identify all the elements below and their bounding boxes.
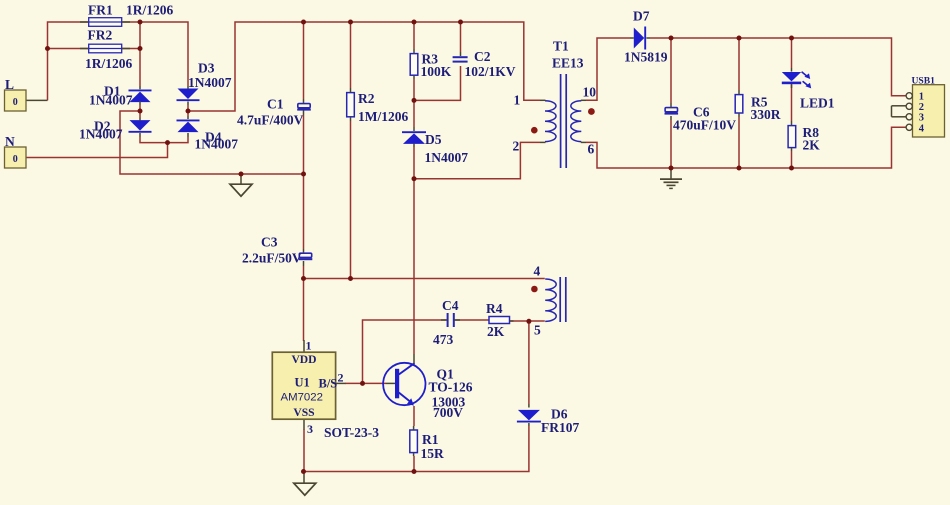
svg-text:R1: R1 — [422, 432, 439, 447]
svg-text:D7: D7 — [633, 9, 650, 24]
svg-text:D5: D5 — [425, 132, 442, 147]
svg-text:TO-126: TO-126 — [429, 380, 473, 395]
svg-text:15R: 15R — [421, 446, 445, 461]
svg-text:1: 1 — [919, 91, 924, 102]
svg-text:3: 3 — [307, 422, 313, 436]
svg-text:R4: R4 — [486, 301, 503, 316]
svg-text:D3: D3 — [198, 61, 215, 76]
svg-text:C2: C2 — [474, 49, 491, 64]
svg-text:1R/1206: 1R/1206 — [126, 3, 174, 18]
svg-text:VDD: VDD — [291, 353, 316, 366]
svg-text:0: 0 — [13, 97, 18, 108]
svg-text:700V: 700V — [433, 405, 463, 420]
svg-text:1R/1206: 1R/1206 — [85, 56, 133, 71]
svg-text:2: 2 — [919, 102, 924, 113]
svg-text:B/S: B/S — [319, 377, 338, 391]
svg-text:2: 2 — [338, 371, 344, 385]
svg-text:SOT-23-3: SOT-23-3 — [324, 425, 379, 440]
svg-text:4: 4 — [919, 123, 925, 134]
svg-text:U1: U1 — [295, 376, 310, 390]
svg-text:102/1KV: 102/1KV — [465, 64, 516, 79]
svg-text:L: L — [5, 77, 14, 92]
svg-text:5: 5 — [534, 323, 541, 338]
svg-text:4: 4 — [534, 264, 541, 279]
svg-text:3: 3 — [919, 112, 924, 123]
svg-text:1N4007: 1N4007 — [89, 93, 133, 108]
svg-text:C1: C1 — [267, 97, 284, 112]
svg-text:2.2uF/50V: 2.2uF/50V — [242, 251, 302, 266]
svg-text:100K: 100K — [421, 64, 452, 79]
svg-text:LED1: LED1 — [800, 96, 835, 111]
svg-text:2K: 2K — [803, 138, 821, 153]
svg-text:4.7uF/400V: 4.7uF/400V — [237, 113, 304, 128]
svg-text:R2: R2 — [358, 91, 375, 106]
svg-text:FR107: FR107 — [541, 420, 579, 435]
svg-text:1N4007: 1N4007 — [188, 75, 232, 90]
svg-text:330R: 330R — [751, 107, 781, 122]
svg-text:2K: 2K — [487, 324, 505, 339]
svg-text:2: 2 — [513, 139, 520, 154]
svg-text:1N4007: 1N4007 — [425, 150, 469, 165]
svg-text:AM7022: AM7022 — [281, 392, 323, 404]
svg-text:VSS: VSS — [293, 406, 314, 419]
svg-text:T1: T1 — [553, 39, 569, 54]
svg-text:C3: C3 — [261, 235, 278, 250]
svg-text:FR2: FR2 — [88, 28, 113, 43]
svg-text:C4: C4 — [442, 298, 459, 313]
svg-text:FR1: FR1 — [88, 3, 113, 18]
svg-text:USB1: USB1 — [912, 76, 936, 87]
svg-text:N: N — [5, 134, 15, 149]
svg-text:1N4007: 1N4007 — [79, 127, 123, 142]
svg-text:0: 0 — [13, 154, 18, 165]
svg-text:EE13: EE13 — [552, 56, 584, 71]
svg-text:470uF/10V: 470uF/10V — [673, 118, 736, 133]
svg-text:1N4007: 1N4007 — [195, 137, 239, 152]
svg-text:10: 10 — [583, 85, 597, 100]
svg-text:1: 1 — [514, 93, 521, 108]
svg-text:1: 1 — [306, 339, 312, 353]
svg-text:6: 6 — [588, 142, 595, 157]
svg-text:1N5819: 1N5819 — [624, 50, 668, 65]
svg-text:1M/1206: 1M/1206 — [358, 109, 408, 124]
svg-text:473: 473 — [433, 332, 454, 347]
